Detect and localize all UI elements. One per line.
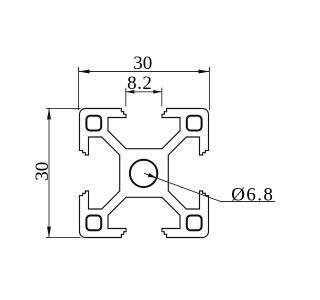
dimension 30 left: extension lines — [46, 108, 81, 237]
dimension 30 left: arrowheads — [47, 108, 51, 119]
dimension 30 left: dimension line — [48, 108, 50, 237]
corner screw hole bottom-right — [187, 216, 202, 231]
leader line for center bore — [144, 173, 275, 201]
dimension 30 top: dimension line — [79, 71, 210, 73]
dimension 8.2: dimension line — [126, 91, 162, 93]
svg-text:30: 30 — [32, 162, 53, 181]
extrusion profile outline — [80, 109, 209, 238]
corner screw hole bottom-left — [86, 216, 101, 231]
dimension 8.2: arrowheads — [126, 90, 135, 94]
center bore hole — [130, 160, 157, 187]
corner screw hole top-left — [86, 116, 101, 131]
dimension 30 top: extension lines — [79, 67, 210, 110]
leader arrowhead — [148, 173, 158, 178]
svg-text:30: 30 — [133, 53, 152, 74]
svg-text:8.2: 8.2 — [127, 73, 152, 94]
dimension 30 top: arrowheads — [79, 70, 90, 74]
dimension 8.2: extension lines — [126, 88, 162, 107]
svg-text:Ø6.8: Ø6.8 — [231, 184, 274, 205]
corner screw hole top-right — [187, 116, 202, 131]
